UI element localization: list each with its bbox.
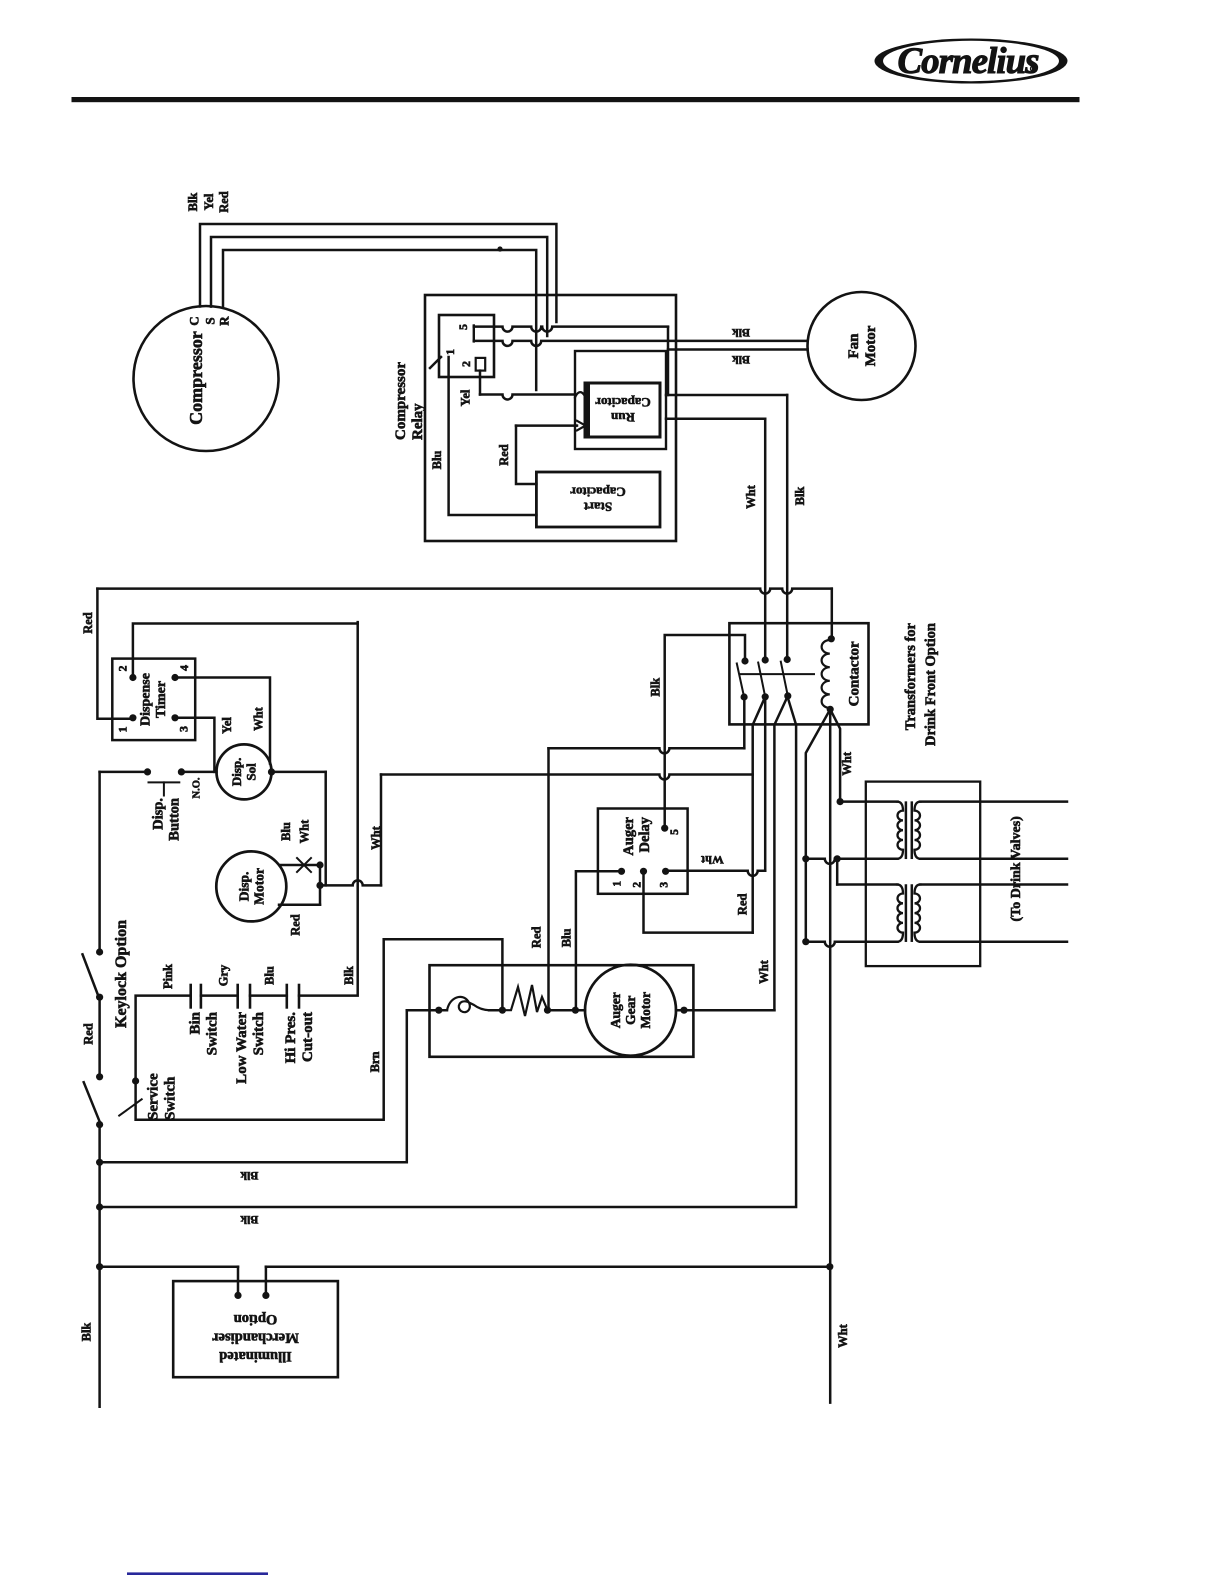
svg-text:Switch: Switch: [163, 1076, 179, 1120]
svg-text:2: 2: [459, 361, 473, 367]
svg-text:Drink Front Option: Drink Front Option: [923, 623, 939, 746]
svg-text:Blk: Blk: [240, 1169, 258, 1183]
svg-text:C: C: [186, 316, 201, 325]
svg-text:Delay: Delay: [637, 816, 653, 852]
svg-text:Yel: Yel: [220, 717, 234, 734]
svg-text:®: ®: [1030, 64, 1037, 74]
svg-text:Compressor: Compressor: [186, 331, 206, 425]
svg-text:Wht: Wht: [757, 959, 771, 983]
svg-text:Blu: Blu: [279, 822, 293, 841]
svg-text:3: 3: [177, 726, 191, 732]
svg-text:Capacitor: Capacitor: [595, 395, 651, 410]
svg-text:Wht: Wht: [840, 751, 854, 775]
svg-text:Relay: Relay: [410, 403, 426, 440]
svg-text:Motor: Motor: [638, 992, 653, 1029]
svg-text:Red: Red: [530, 926, 544, 948]
svg-text:Wht: Wht: [701, 853, 724, 867]
svg-text:Wht: Wht: [297, 819, 311, 843]
svg-text:Blu: Blu: [560, 928, 574, 947]
svg-text:Blk: Blk: [186, 193, 200, 212]
svg-text:Bin: Bin: [188, 1011, 204, 1034]
svg-text:1: 1: [443, 349, 457, 355]
svg-text:Red: Red: [217, 191, 231, 213]
svg-text:3: 3: [659, 882, 671, 888]
svg-text:Fan: Fan: [846, 333, 862, 359]
svg-text:Auger: Auger: [608, 992, 623, 1028]
svg-text:Blu: Blu: [430, 451, 444, 470]
svg-text:Blk: Blk: [240, 1213, 258, 1227]
svg-text:Motor: Motor: [251, 868, 266, 905]
svg-text:Start: Start: [583, 500, 612, 515]
svg-text:Wht: Wht: [252, 706, 266, 730]
svg-text:Cornelius: Cornelius: [897, 41, 1039, 82]
svg-text:Transformers for: Transformers for: [903, 622, 919, 730]
svg-text:S: S: [202, 317, 217, 324]
svg-text:2: 2: [632, 882, 644, 888]
svg-text:Disp.: Disp.: [229, 758, 244, 787]
svg-text:Hi Pres.: Hi Pres.: [283, 1012, 299, 1064]
svg-text:Pink: Pink: [161, 964, 175, 989]
svg-text:Timer: Timer: [154, 681, 169, 718]
svg-text:Blk: Blk: [732, 353, 750, 367]
svg-text:N.O.: N.O.: [192, 777, 203, 798]
svg-text:Yel: Yel: [459, 389, 473, 406]
svg-text:5: 5: [669, 829, 681, 835]
svg-text:Wht: Wht: [369, 825, 383, 849]
svg-text:Wht: Wht: [744, 484, 758, 508]
svg-text:Red: Red: [735, 893, 749, 915]
svg-text:R: R: [216, 316, 231, 326]
svg-text:Blk: Blk: [793, 487, 807, 506]
svg-text:Red: Red: [497, 444, 511, 466]
svg-text:1: 1: [612, 881, 624, 887]
svg-text:Switch: Switch: [251, 1011, 267, 1055]
svg-text:Option: Option: [234, 1311, 278, 1327]
svg-text:2: 2: [116, 666, 130, 672]
svg-text:Disp.: Disp.: [236, 872, 251, 902]
svg-text:Brn: Brn: [368, 1052, 382, 1073]
svg-text:Blk: Blk: [732, 326, 750, 340]
svg-text:Service: Service: [146, 1073, 162, 1120]
svg-text:Gry: Gry: [217, 964, 231, 986]
svg-text:Run: Run: [610, 410, 635, 425]
svg-text:Blu: Blu: [263, 966, 277, 985]
svg-text:Blk: Blk: [342, 966, 356, 985]
svg-text:Blk: Blk: [80, 1323, 94, 1342]
svg-text:Low Water: Low Water: [234, 1012, 250, 1084]
svg-text:1: 1: [116, 727, 130, 733]
svg-text:Illuminated: Illuminated: [219, 1348, 292, 1364]
svg-text:Capacitor: Capacitor: [570, 485, 626, 500]
svg-text:Contactor: Contactor: [847, 641, 863, 706]
svg-text:Motor: Motor: [863, 325, 879, 366]
svg-text:Red: Red: [81, 612, 95, 634]
svg-text:Blk: Blk: [649, 678, 663, 697]
svg-text:Red: Red: [82, 1023, 96, 1045]
svg-text:Auger: Auger: [621, 816, 637, 855]
svg-text:Sol: Sol: [244, 763, 259, 781]
svg-text:Yel: Yel: [202, 193, 216, 210]
svg-text:Dispense: Dispense: [138, 673, 153, 726]
svg-text:Keylock Option: Keylock Option: [113, 920, 130, 1028]
svg-text:Switch: Switch: [204, 1011, 220, 1055]
svg-text:(To Drink Valves): (To Drink Valves): [1009, 816, 1024, 922]
svg-text:4: 4: [177, 665, 191, 671]
svg-text:Cut-out: Cut-out: [300, 1012, 316, 1062]
svg-text:Merchandiser: Merchandiser: [212, 1330, 299, 1346]
svg-text:Disp.: Disp.: [150, 798, 166, 830]
svg-text:5: 5: [456, 324, 470, 330]
svg-text:Wht: Wht: [836, 1323, 850, 1347]
svg-text:Compressor: Compressor: [393, 362, 409, 440]
svg-text:Button: Button: [167, 798, 183, 841]
svg-text:Gear: Gear: [623, 996, 638, 1025]
svg-text:Red: Red: [288, 914, 302, 936]
